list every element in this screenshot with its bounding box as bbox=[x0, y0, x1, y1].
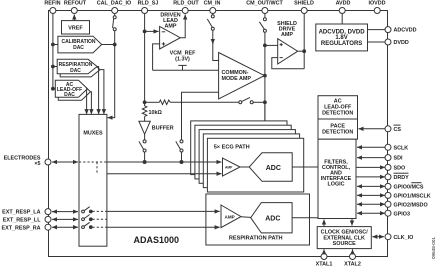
wire CM net into ECG stack bbox=[264, 102, 266, 121]
pin SCLK bbox=[385, 144, 408, 151]
wire RESP line 2 bbox=[107, 226, 220, 228]
pin CS (overline) bbox=[385, 125, 401, 133]
pin RLD_OUT bbox=[173, 1, 199, 14]
wire ECG line 1 (electrode to amp) bbox=[107, 161, 222, 164]
svg-text:EXT_RESP_RA: EXT_RESP_RA bbox=[2, 225, 41, 231]
svg-text:GPIO1/MSCLK: GPIO1/MSCLK bbox=[394, 194, 431, 200]
svg-text:GPIO0/MCS: GPIO0/MCS bbox=[394, 185, 424, 191]
pin GPIO2/MSDO bbox=[385, 201, 428, 208]
svg-text:ADCVDD: ADCVDD bbox=[394, 28, 417, 34]
svg-text:SHIELD: SHIELD bbox=[294, 1, 314, 7]
svg-text:XTAL2: XTAL2 bbox=[344, 262, 361, 268]
svg-text:09648-001: 09648-001 bbox=[431, 237, 436, 259]
wire shield amp output to SHIELD net bbox=[298, 50, 306, 53]
svg-text:CM_OUT/WCT: CM_OUT/WCT bbox=[246, 1, 283, 7]
wire GPIO1 bbox=[357, 194, 385, 196]
svg-text:AVDD: AVDD bbox=[336, 1, 351, 7]
svg-text:5× ECG PATH: 5× ECG PATH bbox=[214, 145, 250, 151]
pin DVDD bbox=[385, 39, 409, 46]
svg-text:BUFFER: BUFFER bbox=[152, 126, 174, 132]
svg-text:EXT_RESP_LA: EXT_RESP_LA bbox=[2, 210, 40, 216]
svg-text:REFIN: REFIN bbox=[44, 1, 60, 7]
wire electrode bus dashed inside mux bbox=[79, 162, 107, 174]
op-amp SHIELD DRIVE AMP bbox=[277, 21, 298, 64]
svg-text:DAC: DAC bbox=[70, 68, 81, 74]
op-amp DRIVEN LEAD AMP bbox=[160, 12, 181, 49]
block ADCVDD, DVDD 1.8V REGULATORS bbox=[316, 24, 368, 51]
svg-text:CS: CS bbox=[394, 127, 402, 133]
block MUXES bbox=[79, 114, 107, 246]
wire SCLK bbox=[357, 146, 385, 148]
buffer amp (triangle down) bbox=[139, 116, 174, 134]
svg-text:CAL_DAC_IO: CAL_DAC_IO bbox=[97, 1, 131, 7]
svg-text:REGULATORS: REGULATORS bbox=[321, 41, 362, 47]
pin CAL_DAC_IO bbox=[97, 1, 131, 14]
pin SDO bbox=[385, 164, 405, 171]
pin DRDY (overline) bbox=[385, 173, 409, 181]
pin GPIO0/MCS bbox=[385, 183, 424, 191]
pin GPIO1/MSCLK bbox=[385, 192, 431, 199]
wire EXT_RESP_LL double arrow + mux switch bbox=[52, 215, 107, 221]
resistor vertical (RLD_SJ) bbox=[142, 106, 162, 117]
adc RESPIRATION ADC bbox=[241, 203, 292, 233]
wire noninverting input to VCM node bbox=[153, 44, 160, 70]
svg-text:AMP: AMP bbox=[281, 32, 293, 38]
wire ELECTRODES double arrow bbox=[52, 161, 78, 163]
ECG path stacked cards bbox=[191, 121, 304, 192]
pin ELECTRODES x5 bbox=[4, 156, 51, 168]
svg-text:ADC: ADC bbox=[266, 165, 281, 172]
wire VREF to REFOUT bbox=[73, 15, 75, 21]
svg-text:VREF: VREF bbox=[68, 26, 83, 32]
adc ECG ADC bbox=[240, 153, 292, 182]
pin AVDD bbox=[336, 1, 351, 14]
pin REFOUT bbox=[64, 1, 87, 14]
wire AVDD to regulators bbox=[341, 14, 343, 25]
wire EXT_RESP_RA double arrow + mux switch bbox=[52, 222, 107, 228]
wire CLK_IO double arrow bbox=[372, 236, 384, 238]
wire filters to clock (right) bbox=[351, 219, 353, 226]
svg-text:DVDD: DVDD bbox=[394, 40, 409, 46]
wire ECG line 2 bbox=[107, 173, 222, 175]
svg-text:10kΩ: 10kΩ bbox=[149, 110, 163, 116]
wire AC LEAD-OFF DAC outputs to MUXES bbox=[87, 89, 92, 115]
svg-text:EXT_RESP_LL: EXT_RESP_LL bbox=[3, 218, 41, 224]
pin SHIELD bbox=[294, 1, 314, 14]
node VCM_REF (1.3V) bbox=[153, 51, 219, 71]
svg-text:IOVDD: IOVDD bbox=[368, 1, 385, 7]
svg-text:SDO: SDO bbox=[394, 166, 406, 172]
wire RESP ADC to filters bbox=[292, 217, 318, 219]
DAC AC LEAD-OFF DAC (stacked pair) bbox=[55, 80, 90, 100]
pin EXT_RESP_LA bbox=[2, 209, 51, 216]
svg-text:RESPIRATION PATH: RESPIRATION PATH bbox=[229, 235, 283, 241]
svg-text:DRDY: DRDY bbox=[394, 175, 410, 181]
svg-text:DETECTION: DETECTION bbox=[322, 110, 353, 116]
pin ADCVDD bbox=[385, 27, 417, 34]
wire DRDY bbox=[356, 176, 385, 178]
svg-text:DETECTION: DETECTION bbox=[322, 129, 353, 135]
switch below buffer bbox=[139, 134, 146, 162]
svg-text:RLD_SJ: RLD_SJ bbox=[138, 1, 159, 7]
pin EXT_RESP_LL bbox=[3, 216, 51, 223]
svg-text:ADAS1000: ADAS1000 bbox=[134, 235, 180, 245]
svg-text:AMP: AMP bbox=[165, 23, 177, 29]
svg-text:GPIO3: GPIO3 bbox=[394, 211, 410, 217]
svg-text:LOGIC: LOGIC bbox=[327, 182, 344, 188]
svg-text:REFOUT: REFOUT bbox=[64, 1, 87, 7]
svg-text:RLD_OUT: RLD_OUT bbox=[173, 1, 199, 7]
pin REFIN bbox=[44, 1, 60, 14]
wire RLD_SJ net bbox=[143, 14, 146, 107]
pin SDI bbox=[385, 155, 403, 162]
svg-text:AMP: AMP bbox=[225, 165, 233, 169]
svg-text:×5: ×5 bbox=[34, 161, 40, 167]
wire EXT_RESP_LA double arrow + mux switch bbox=[52, 207, 107, 213]
pin GPIO3 bbox=[385, 210, 410, 217]
wire driven lead amp output to RLD_OUT bbox=[180, 15, 185, 38]
pin CLK_IO bbox=[385, 234, 413, 241]
svg-text:CLK_IO: CLK_IO bbox=[394, 235, 414, 241]
svg-text:SOURCE: SOURCE bbox=[333, 241, 356, 247]
pin IOVDD bbox=[368, 1, 385, 14]
pin EXT_RESP_RA bbox=[2, 224, 51, 231]
wire GPIO0 bbox=[357, 185, 385, 187]
wire CAL_DAC_IO net with switch bbox=[102, 14, 117, 118]
pin CM_OUT/WCT bbox=[246, 1, 283, 14]
wire filters to clock (left) bbox=[323, 220, 325, 227]
block FILTERS, CONTROL, AND INTERFACE LOGIC bbox=[318, 139, 356, 218]
wire CS bbox=[359, 128, 386, 130]
wire REFIN net bbox=[52, 14, 58, 91]
label ADAS1000 bbox=[134, 235, 180, 245]
svg-text:MODE AMP: MODE AMP bbox=[222, 76, 252, 82]
wire RESP line 1 bbox=[107, 210, 220, 212]
wire XTAL1 to clock bbox=[323, 249, 325, 253]
block CLOCK GEN/OSC/EXTERNAL CLK SOURCE bbox=[317, 227, 371, 249]
wire SDO bbox=[356, 166, 385, 168]
wire CM_IN net with switch bbox=[207, 14, 218, 61]
pin CM_IN bbox=[204, 1, 221, 14]
wire RLD_SJ to inverting input bbox=[145, 30, 159, 32]
pin RLD_SJ bbox=[138, 1, 159, 14]
wire ECG ADC to filters bbox=[292, 166, 318, 168]
wire regulators to DVDD pin bbox=[368, 41, 386, 43]
wire SDI bbox=[357, 157, 385, 159]
watermark figure number bbox=[431, 237, 436, 259]
svg-text:(1.3V): (1.3V) bbox=[175, 57, 190, 63]
svg-text:ADC: ADC bbox=[265, 216, 280, 223]
block PACE DETECTION bbox=[318, 119, 358, 139]
svg-text:XTAL1: XTAL1 bbox=[316, 262, 333, 268]
wire XTAL2 to clock bbox=[352, 249, 354, 253]
block RESPIRATION PATH bbox=[206, 194, 310, 245]
op-amp COMMON-MODE AMP bbox=[219, 53, 265, 99]
DAC CALIBRATION DAC bbox=[58, 36, 102, 53]
svg-text:SCLK: SCLK bbox=[394, 145, 409, 151]
wire RESPIRATION DAC outputs to MUXES bbox=[97, 67, 104, 115]
wire CM node to shield amp + input bbox=[265, 44, 278, 46]
block AC LEAD-OFF DETECTION bbox=[318, 96, 358, 119]
wire RLD_SJ resistor loop with switch to CM node bbox=[145, 97, 265, 104]
DAC RESPIRATION DAC (stacked pair) bbox=[57, 59, 100, 77]
svg-text:GPIO2/MSDO: GPIO2/MSDO bbox=[394, 202, 428, 208]
pin XTAL1 bbox=[316, 254, 333, 268]
wire common-mode amp lower input to electrode line switch bbox=[176, 92, 219, 162]
svg-text:DAC: DAC bbox=[64, 92, 75, 98]
svg-text:MUXES: MUXES bbox=[83, 131, 103, 137]
svg-text:DAC: DAC bbox=[73, 45, 84, 51]
chip outline border bbox=[49, 11, 388, 257]
op-amp ECG AMP bbox=[223, 158, 241, 176]
wire SHIELD net bbox=[303, 14, 305, 69]
wire GPIO2 bbox=[357, 203, 385, 205]
svg-text:AMP: AMP bbox=[225, 214, 235, 219]
wire GPIO3 bbox=[357, 212, 385, 214]
svg-text:SDI: SDI bbox=[394, 156, 403, 162]
pin XTAL2 bbox=[344, 254, 361, 268]
op-amp RESPIRATION AMP bbox=[221, 205, 241, 228]
wire shield amp feedback bbox=[272, 58, 304, 69]
wire regulators to ADCVDD pin bbox=[368, 29, 386, 31]
wire CM_OUT/WCT net with switch bbox=[259, 14, 266, 122]
svg-text:CM_IN: CM_IN bbox=[204, 1, 221, 7]
block VREF bbox=[62, 21, 90, 34]
